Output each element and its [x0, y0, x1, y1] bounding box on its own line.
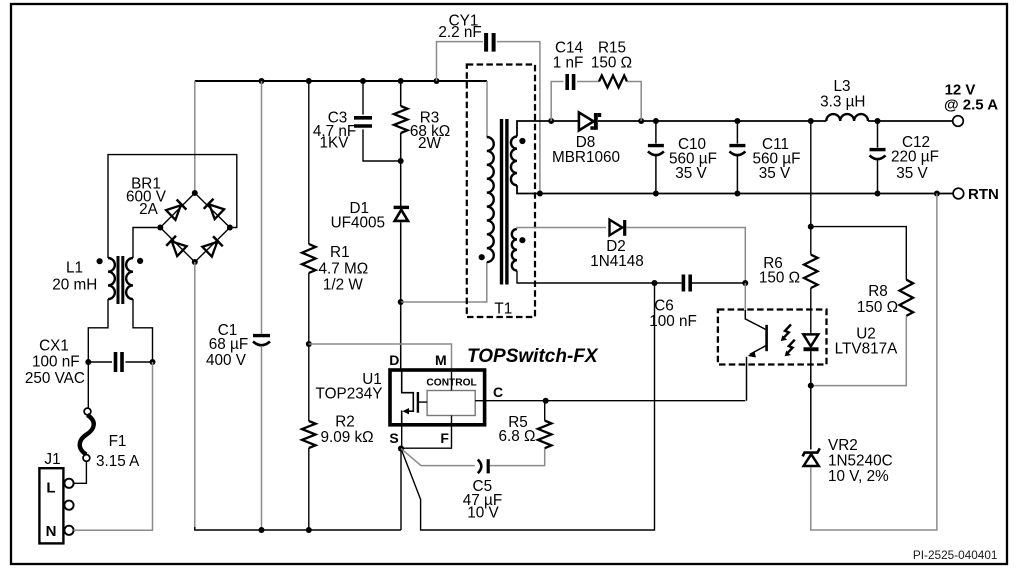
- svg-text:3.3 µH: 3.3 µH: [820, 93, 865, 110]
- svg-text:UF4005: UF4005: [331, 215, 385, 232]
- resistor R6: [810, 227, 812, 255]
- capacitor C11: [729, 121, 745, 194]
- node rail R3 tap: [398, 78, 404, 84]
- wire L1 right top to BR1 left: [133, 228, 157, 259]
- transistor U2 phototransistor: [745, 283, 766, 401]
- svg-text:150 Ω: 150 Ω: [591, 55, 632, 72]
- optocoupler U2 boundary: [718, 310, 827, 365]
- svg-text:R8: R8: [868, 283, 888, 300]
- wire VR2 anode to RTN: [811, 194, 937, 531]
- fuse F1: [80, 408, 94, 461]
- diode D1: [394, 207, 409, 221]
- node C10 bottom: [653, 191, 659, 197]
- svg-text:6.8 Ω: 6.8 Ω: [499, 428, 536, 445]
- svg-text:2W: 2W: [418, 135, 442, 152]
- wire D1 anode to drain node: [400, 222, 402, 302]
- connector J1: [39, 468, 73, 543]
- resistor R1: [308, 81, 310, 244]
- diode D2: [610, 220, 627, 236]
- svg-text:68 µF: 68 µF: [209, 336, 248, 353]
- diode D8: [579, 112, 601, 130]
- wire bias bottom to C6: [517, 271, 682, 283]
- wire secondary return rail: [517, 185, 953, 193]
- svg-text:2.2 nF: 2.2 nF: [438, 24, 481, 41]
- node rail CY1 tap: [434, 78, 440, 84]
- svg-text:L1: L1: [66, 260, 83, 277]
- svg-text:R1: R1: [330, 244, 350, 261]
- svg-text:9.09 kΩ: 9.09 kΩ: [320, 429, 373, 446]
- diode VR2 zener: [803, 448, 820, 466]
- node rail C3 tap: [360, 78, 366, 84]
- wire rail to transformer primary: [486, 81, 488, 137]
- svg-text:CX1: CX1: [39, 337, 69, 354]
- wire rail to BR1 plus: [194, 81, 196, 193]
- svg-text:35 V: 35 V: [675, 165, 707, 182]
- svg-text:@ 2.5 A: @ 2.5 A: [944, 97, 998, 114]
- wire CX1 to fuse: [87, 362, 89, 408]
- wire S to C5: [401, 449, 475, 466]
- node C11 bottom: [734, 191, 740, 197]
- svg-text:D: D: [389, 352, 399, 368]
- node R6 R8 junction: [808, 224, 814, 230]
- svg-text:L: L: [46, 479, 55, 496]
- capacitor C10: [648, 121, 664, 194]
- resistor R3: [400, 81, 402, 106]
- wire C14 to R15: [577, 81, 599, 83]
- svg-text:PI-2525-040401: PI-2525-040401: [913, 548, 998, 562]
- svg-text:10 V: 10 V: [467, 504, 499, 521]
- svg-text:150 Ω: 150 Ω: [759, 269, 800, 286]
- wire R15 to rail: [627, 82, 641, 122]
- wire C pin feedback line: [487, 400, 746, 402]
- transformer T1 secondary winding: [511, 137, 517, 186]
- node clamp RC junction: [398, 158, 404, 164]
- svg-text:400 V: 400 V: [206, 352, 247, 369]
- wire CY1 right branch to secondary return: [497, 42, 540, 194]
- wire U1 S pin: [401, 426, 403, 449]
- wire C5 to R5: [490, 448, 545, 465]
- LED emission arrows: [781, 324, 795, 356]
- capacitor CY1: [486, 33, 494, 52]
- svg-text:S: S: [389, 430, 398, 446]
- svg-text:RTN: RTN: [968, 186, 999, 203]
- wire top DC rail: [195, 80, 487, 82]
- bridge rectifier BR1: [160, 193, 230, 262]
- svg-text:1N4148: 1N4148: [590, 253, 644, 270]
- svg-text:M: M: [435, 352, 447, 368]
- op-amp U1 TOPSwitch outline: [390, 370, 485, 425]
- wire drain node to primary bottom: [401, 262, 487, 302]
- capacitor C1: [261, 81, 263, 334]
- terminal 12V: [953, 116, 964, 127]
- svg-text:100 nF: 100 nF: [649, 313, 697, 330]
- node rail R1 tap: [306, 78, 312, 84]
- wire R8 branch top: [811, 227, 907, 280]
- svg-text:1N5240C: 1N5240C: [828, 452, 893, 469]
- node BR1 ac right: [227, 225, 233, 231]
- wire J1 N to CX1 right: [74, 362, 153, 530]
- wire CY1 left branch: [437, 42, 484, 81]
- svg-text:220 µF: 220 µF: [891, 148, 939, 165]
- capacitor C3: [354, 118, 372, 126]
- wire L1 left top loop to BR1 right: [108, 155, 237, 258]
- node L1 left phase dot: [97, 258, 103, 264]
- wire bias top to D2: [517, 228, 606, 230]
- node bias return tap: [652, 280, 658, 286]
- U1 F pin internal lead: [451, 416, 453, 427]
- wire L1 right bottom to CX1 right: [133, 299, 153, 362]
- wire D2 cathode to opto collector: [626, 228, 745, 284]
- wire S to bottom bus: [400, 449, 402, 530]
- svg-text:20 mH: 20 mH: [52, 277, 97, 294]
- wire secondary top to 12V rail: [517, 121, 579, 137]
- capacitor CX1: [88, 352, 152, 372]
- node C10 top: [653, 118, 659, 124]
- svg-text:J1: J1: [44, 451, 60, 468]
- node M pin junction: [306, 341, 312, 347]
- resistor R15: [599, 76, 627, 88]
- capacitor C6: [683, 275, 690, 292]
- svg-text:1KV: 1KV: [320, 135, 350, 152]
- wire drain node to U1 D pin: [400, 302, 402, 370]
- LED U2 internal: [803, 333, 818, 386]
- svg-text:35 V: 35 V: [896, 165, 928, 182]
- svg-text:N: N: [46, 523, 57, 540]
- svg-text:F1: F1: [109, 433, 127, 450]
- svg-text:4.7 MΩ: 4.7 MΩ: [319, 260, 369, 277]
- node S junction: [398, 446, 404, 452]
- resistor R5: [538, 421, 552, 449]
- node L1 right phase dot: [137, 258, 143, 264]
- node R5 tap: [543, 398, 549, 404]
- wire L1 left bottom to CX1 left: [88, 299, 108, 362]
- capacitor C12: [870, 121, 886, 194]
- U1 M pin internal lead: [451, 372, 453, 391]
- svg-text:1/2 W: 1/2 W: [323, 276, 364, 293]
- node CX1 left: [85, 359, 91, 365]
- wire F pin loop to S: [404, 426, 452, 448]
- node BR1 plus: [192, 190, 198, 196]
- wire bias return to bottom bus: [401, 283, 655, 530]
- capacitor C5: [478, 459, 488, 473]
- node BR1 minus: [192, 259, 198, 265]
- svg-text:2A: 2A: [139, 201, 159, 218]
- svg-text:10 V, 2%: 10 V, 2%: [828, 468, 889, 485]
- wire C3 top lead: [362, 81, 364, 115]
- svg-text:250 VAC: 250 VAC: [25, 370, 85, 387]
- svg-text:100 nF: 100 nF: [32, 354, 80, 371]
- node R15 return tap: [638, 118, 644, 124]
- wire L3 to 12V terminal: [868, 120, 953, 122]
- svg-text:TOPSwitch-FX: TOPSwitch-FX: [467, 346, 599, 367]
- inductor L1: [108, 256, 133, 304]
- wire C6 to collector node: [692, 282, 745, 284]
- svg-text:3.15 A: 3.15 A: [96, 453, 140, 470]
- inductor L3: [826, 114, 868, 121]
- node bus R2 tap: [306, 527, 312, 533]
- svg-text:MBR1060: MBR1060: [552, 149, 620, 166]
- node drain junction: [398, 299, 404, 305]
- node bus C1 tap: [259, 527, 265, 533]
- node C14 tap: [548, 118, 554, 124]
- resistor R8: [900, 280, 914, 316]
- node feedback tap: [808, 118, 814, 124]
- svg-text:T1: T1: [494, 301, 512, 318]
- node VR2 return: [934, 191, 940, 197]
- U1 control block: [427, 391, 475, 416]
- svg-text:35 V: 35 V: [759, 165, 791, 182]
- wire 12V to feedback divider: [810, 121, 812, 227]
- wire fuse to J1 L pin: [74, 462, 86, 484]
- svg-text:1 nF: 1 nF: [553, 55, 584, 72]
- node opto collector junction: [742, 280, 748, 286]
- transformer T1 bias winding: [512, 229, 517, 271]
- wire R8 branch bottom: [811, 316, 907, 386]
- wire C14 riser: [551, 82, 563, 122]
- svg-text:F: F: [440, 430, 449, 446]
- node secondary phase dot: [519, 138, 525, 144]
- svg-text:TOP234Y: TOP234Y: [316, 386, 383, 403]
- node BR1 ac left: [157, 225, 163, 231]
- node C11 top: [734, 118, 740, 124]
- wire BR1 minus to bottom bus: [194, 262, 196, 527]
- node CX1 right: [150, 359, 156, 365]
- transistor U1 internal MOSFET: [402, 370, 427, 426]
- resistor R2: [308, 344, 310, 421]
- svg-text:C: C: [493, 384, 503, 400]
- transformer T1 boundary: [467, 65, 535, 318]
- wire LED to VR2: [810, 386, 812, 450]
- node LED cathode junction: [808, 383, 814, 389]
- svg-text:LTV817A: LTV817A: [835, 340, 898, 357]
- terminal RTN: [953, 188, 964, 199]
- capacitor C14: [567, 74, 573, 90]
- wire D1 cathode lead: [400, 161, 402, 206]
- U1 C pin lead: [475, 400, 486, 402]
- node primary phase dot: [479, 254, 485, 260]
- transformer T1 core: [502, 119, 507, 285]
- node C12 bottom: [875, 191, 881, 197]
- wire 12V rail D8 to L3: [598, 120, 826, 122]
- wire M pin: [309, 344, 452, 370]
- node C12 top: [875, 118, 881, 124]
- transformer T1 primary winding: [487, 137, 494, 262]
- wire C3 bottom to clamp node: [363, 129, 401, 161]
- node bias phase dot: [519, 237, 525, 243]
- wire R5 to C pin line: [544, 401, 546, 421]
- svg-text:150 Ω: 150 Ω: [857, 299, 898, 316]
- node CY1 return: [537, 191, 543, 197]
- node rail C1 tap: [259, 78, 265, 84]
